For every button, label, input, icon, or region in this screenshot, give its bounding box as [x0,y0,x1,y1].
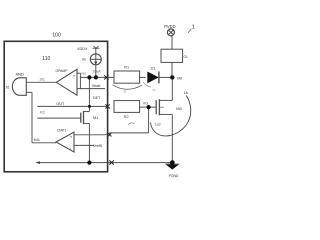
svg-text:D1: D1 [151,66,156,70]
svg-text:100: 100 [52,33,61,39]
svg-text:Vbatt: Vbatt [92,84,102,88]
svg-text:VrefB: VrefB [93,144,102,148]
svg-text:VDDX: VDDX [77,47,88,51]
svg-text:+: + [73,74,76,79]
svg-text:10uA: 10uA [92,69,101,73]
svg-text:PGND: PGND [169,174,179,178]
svg-text:VG: VG [143,101,149,105]
svg-text:CMP1: CMP1 [57,129,67,133]
svg-text:VB1: VB1 [81,71,87,75]
svg-text:61: 61 [6,86,10,90]
svg-text:R2: R2 [124,115,129,119]
svg-text:M1: M1 [93,116,98,120]
svg-text:AND: AND [15,72,24,77]
svg-text:CL: CL [184,55,189,59]
svg-text:OUT: OUT [56,102,65,106]
svg-text:1: 1 [192,24,195,30]
svg-text:OPAMP: OPAMP [56,69,69,73]
svg-text:PVDD: PVDD [164,24,175,29]
svg-text:R3: R3 [40,111,45,115]
svg-text:641: 641 [34,138,40,142]
svg-text:+: + [70,135,73,140]
svg-text:1a2: 1a2 [155,122,161,126]
svg-text:DET: DET [93,96,101,100]
svg-text:31: 31 [123,90,127,94]
svg-text:101: 101 [39,78,45,82]
svg-text:110: 110 [42,56,50,62]
svg-text:R1: R1 [124,65,129,69]
svg-text:M0: M0 [176,106,182,111]
svg-text:1b: 1b [184,91,188,95]
svg-text:32: 32 [152,88,156,92]
svg-text:VB: VB [177,75,183,80]
